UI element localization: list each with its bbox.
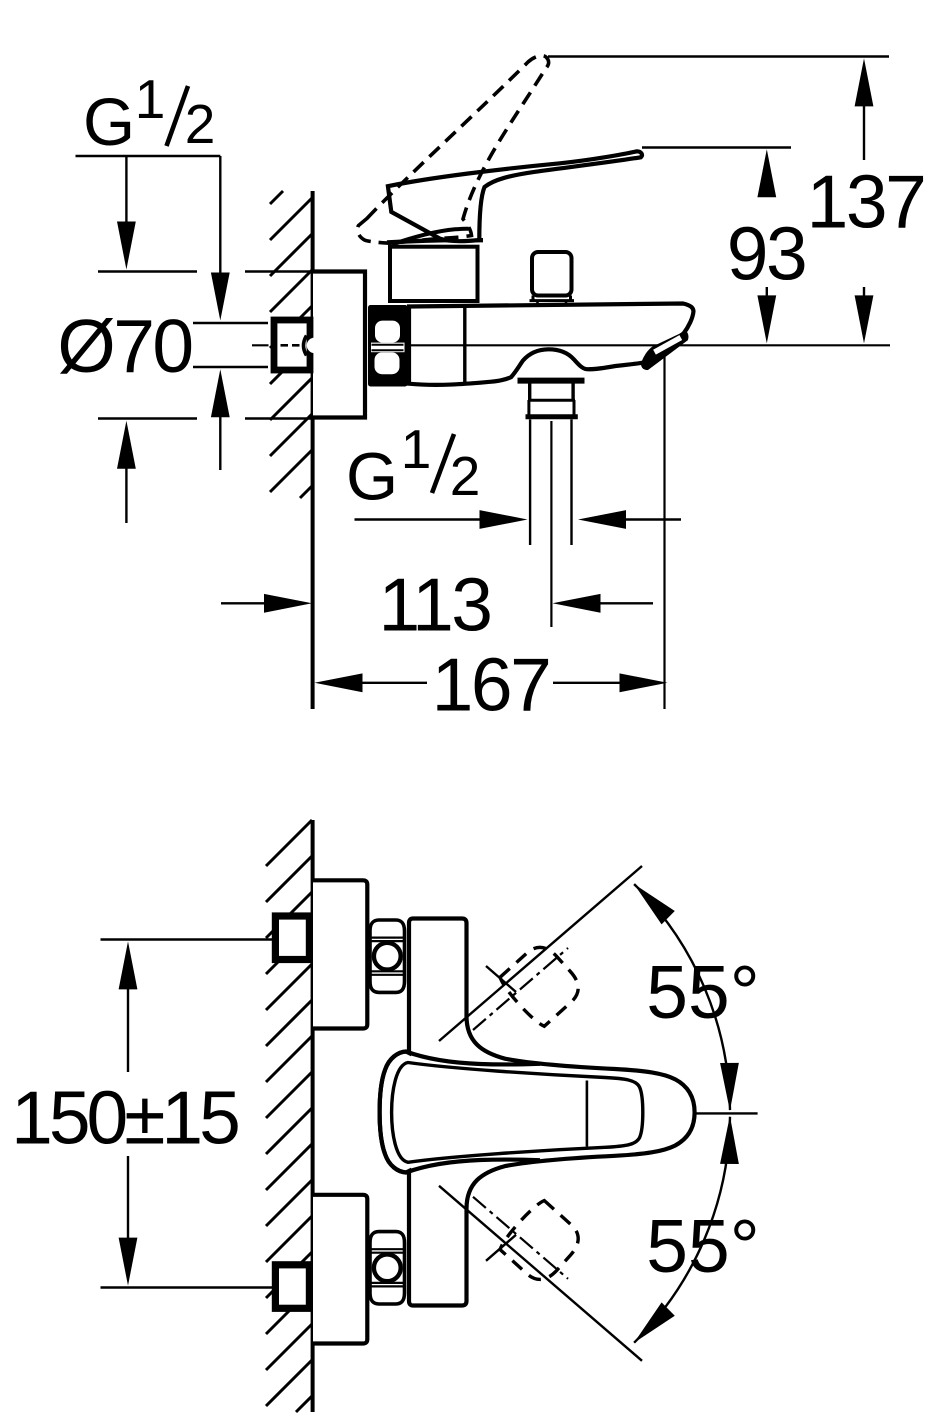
lever outer outline across body (plan) <box>380 1052 540 1173</box>
handle skirt bottom <box>387 240 483 242</box>
supply centerline (side view) <box>252 344 269 346</box>
label G 1/2 (hose outlet) <box>346 418 480 515</box>
horizontal angle reference line <box>694 1112 758 1114</box>
55 deg arc (lower) <box>634 1117 730 1343</box>
svg-text:1: 1 <box>401 418 432 480</box>
dimension 150 extent lines <box>101 938 273 940</box>
lower supply fitting (plan) <box>275 1265 309 1309</box>
flange bottom edge extension <box>245 417 313 420</box>
cartridge dome arc <box>392 229 469 245</box>
dimension 167 <box>315 673 363 692</box>
upper union nut (plan) <box>370 920 405 992</box>
leader arrow to flange <box>125 157 127 224</box>
mixer body + lever silhouette (plan) <box>380 919 695 1306</box>
wall surface line (side view) <box>311 191 315 709</box>
handle rotated +55 deg (dashed, plan) <box>497 940 586 1029</box>
dimension Ø70 extent lines <box>98 270 197 272</box>
aerator (spout outlet) <box>641 331 688 370</box>
lower union nut (plan) <box>370 1232 405 1304</box>
svg-text:167: 167 <box>432 643 550 727</box>
spout tip extension line <box>663 357 665 709</box>
handle rotated -55 deg (dashed, plan) <box>497 1198 586 1287</box>
svg-text:137: 137 <box>807 160 925 244</box>
55 deg arc arrows (lower) <box>634 1302 675 1342</box>
55 deg leg line (lower) <box>439 1186 642 1361</box>
rotation axis dash-dot (upper) <box>473 948 568 1030</box>
rotation axis dash-dot (lower) <box>473 1197 568 1279</box>
lower escutcheon flange (plan) <box>313 1195 367 1344</box>
boss base plate <box>518 378 585 384</box>
svg-text:2: 2 <box>185 93 216 155</box>
mixer body silhouette (side view) <box>409 304 694 385</box>
hose G1/2 leader with arrows <box>355 518 481 520</box>
body vertical seam <box>463 307 466 383</box>
dimension G1/2 fitting arrows <box>211 369 230 417</box>
wall hatching (plan view) <box>266 820 313 1412</box>
svg-text:Ø70: Ø70 <box>57 304 191 388</box>
shower hose union nut <box>526 381 578 417</box>
lever grip edge line <box>586 1081 589 1147</box>
dimension 150 arrows and line <box>119 941 138 989</box>
wall surface line (plan view) <box>311 820 315 1412</box>
svg-text:2: 2 <box>450 445 481 507</box>
union nut (side view) <box>368 305 408 387</box>
svg-text:55°: 55° <box>646 1204 759 1288</box>
escutcheon flange (side view) <box>313 272 365 418</box>
leader arrow to fitting <box>219 156 221 274</box>
55 deg leg line (upper) <box>439 866 642 1041</box>
flange top edge extension <box>245 270 313 273</box>
svg-text:150±15: 150±15 <box>11 1076 238 1160</box>
lever inner outline (plan) <box>392 1063 643 1163</box>
supply elbow fitting (side view) <box>274 320 322 370</box>
wall hatching (side view) <box>270 191 313 498</box>
svg-text:93: 93 <box>727 212 805 296</box>
cartridge escutcheon block (side view) <box>390 247 478 301</box>
body seam / dimension reference line y=345 <box>408 344 890 346</box>
label G 1/2 (wall supply) <box>76 68 221 160</box>
svg-text:G: G <box>346 440 398 515</box>
55 deg arc (upper) <box>634 884 730 1110</box>
lever handle closed position (side view) <box>388 151 642 241</box>
dimension 113 <box>221 602 265 604</box>
dimension G1/2 fitting extent lines <box>193 322 268 324</box>
upper supply fitting (plan) <box>275 916 309 960</box>
svg-text:1: 1 <box>135 68 166 130</box>
lever handle open position (dashed) <box>358 56 549 244</box>
diverter knob <box>530 252 575 306</box>
55 deg arc arrows (upper) <box>634 884 675 924</box>
dimension 137 <box>548 55 889 57</box>
dimension 93 <box>642 146 791 148</box>
dimension Ø70 arrows <box>117 421 136 469</box>
hose centerline extension <box>550 421 552 627</box>
svg-text:113: 113 <box>378 563 490 647</box>
upper escutcheon flange (plan) <box>313 880 367 1028</box>
svg-text:55°: 55° <box>646 950 759 1034</box>
shower hose outline <box>529 419 531 545</box>
svg-text:G: G <box>83 85 135 160</box>
